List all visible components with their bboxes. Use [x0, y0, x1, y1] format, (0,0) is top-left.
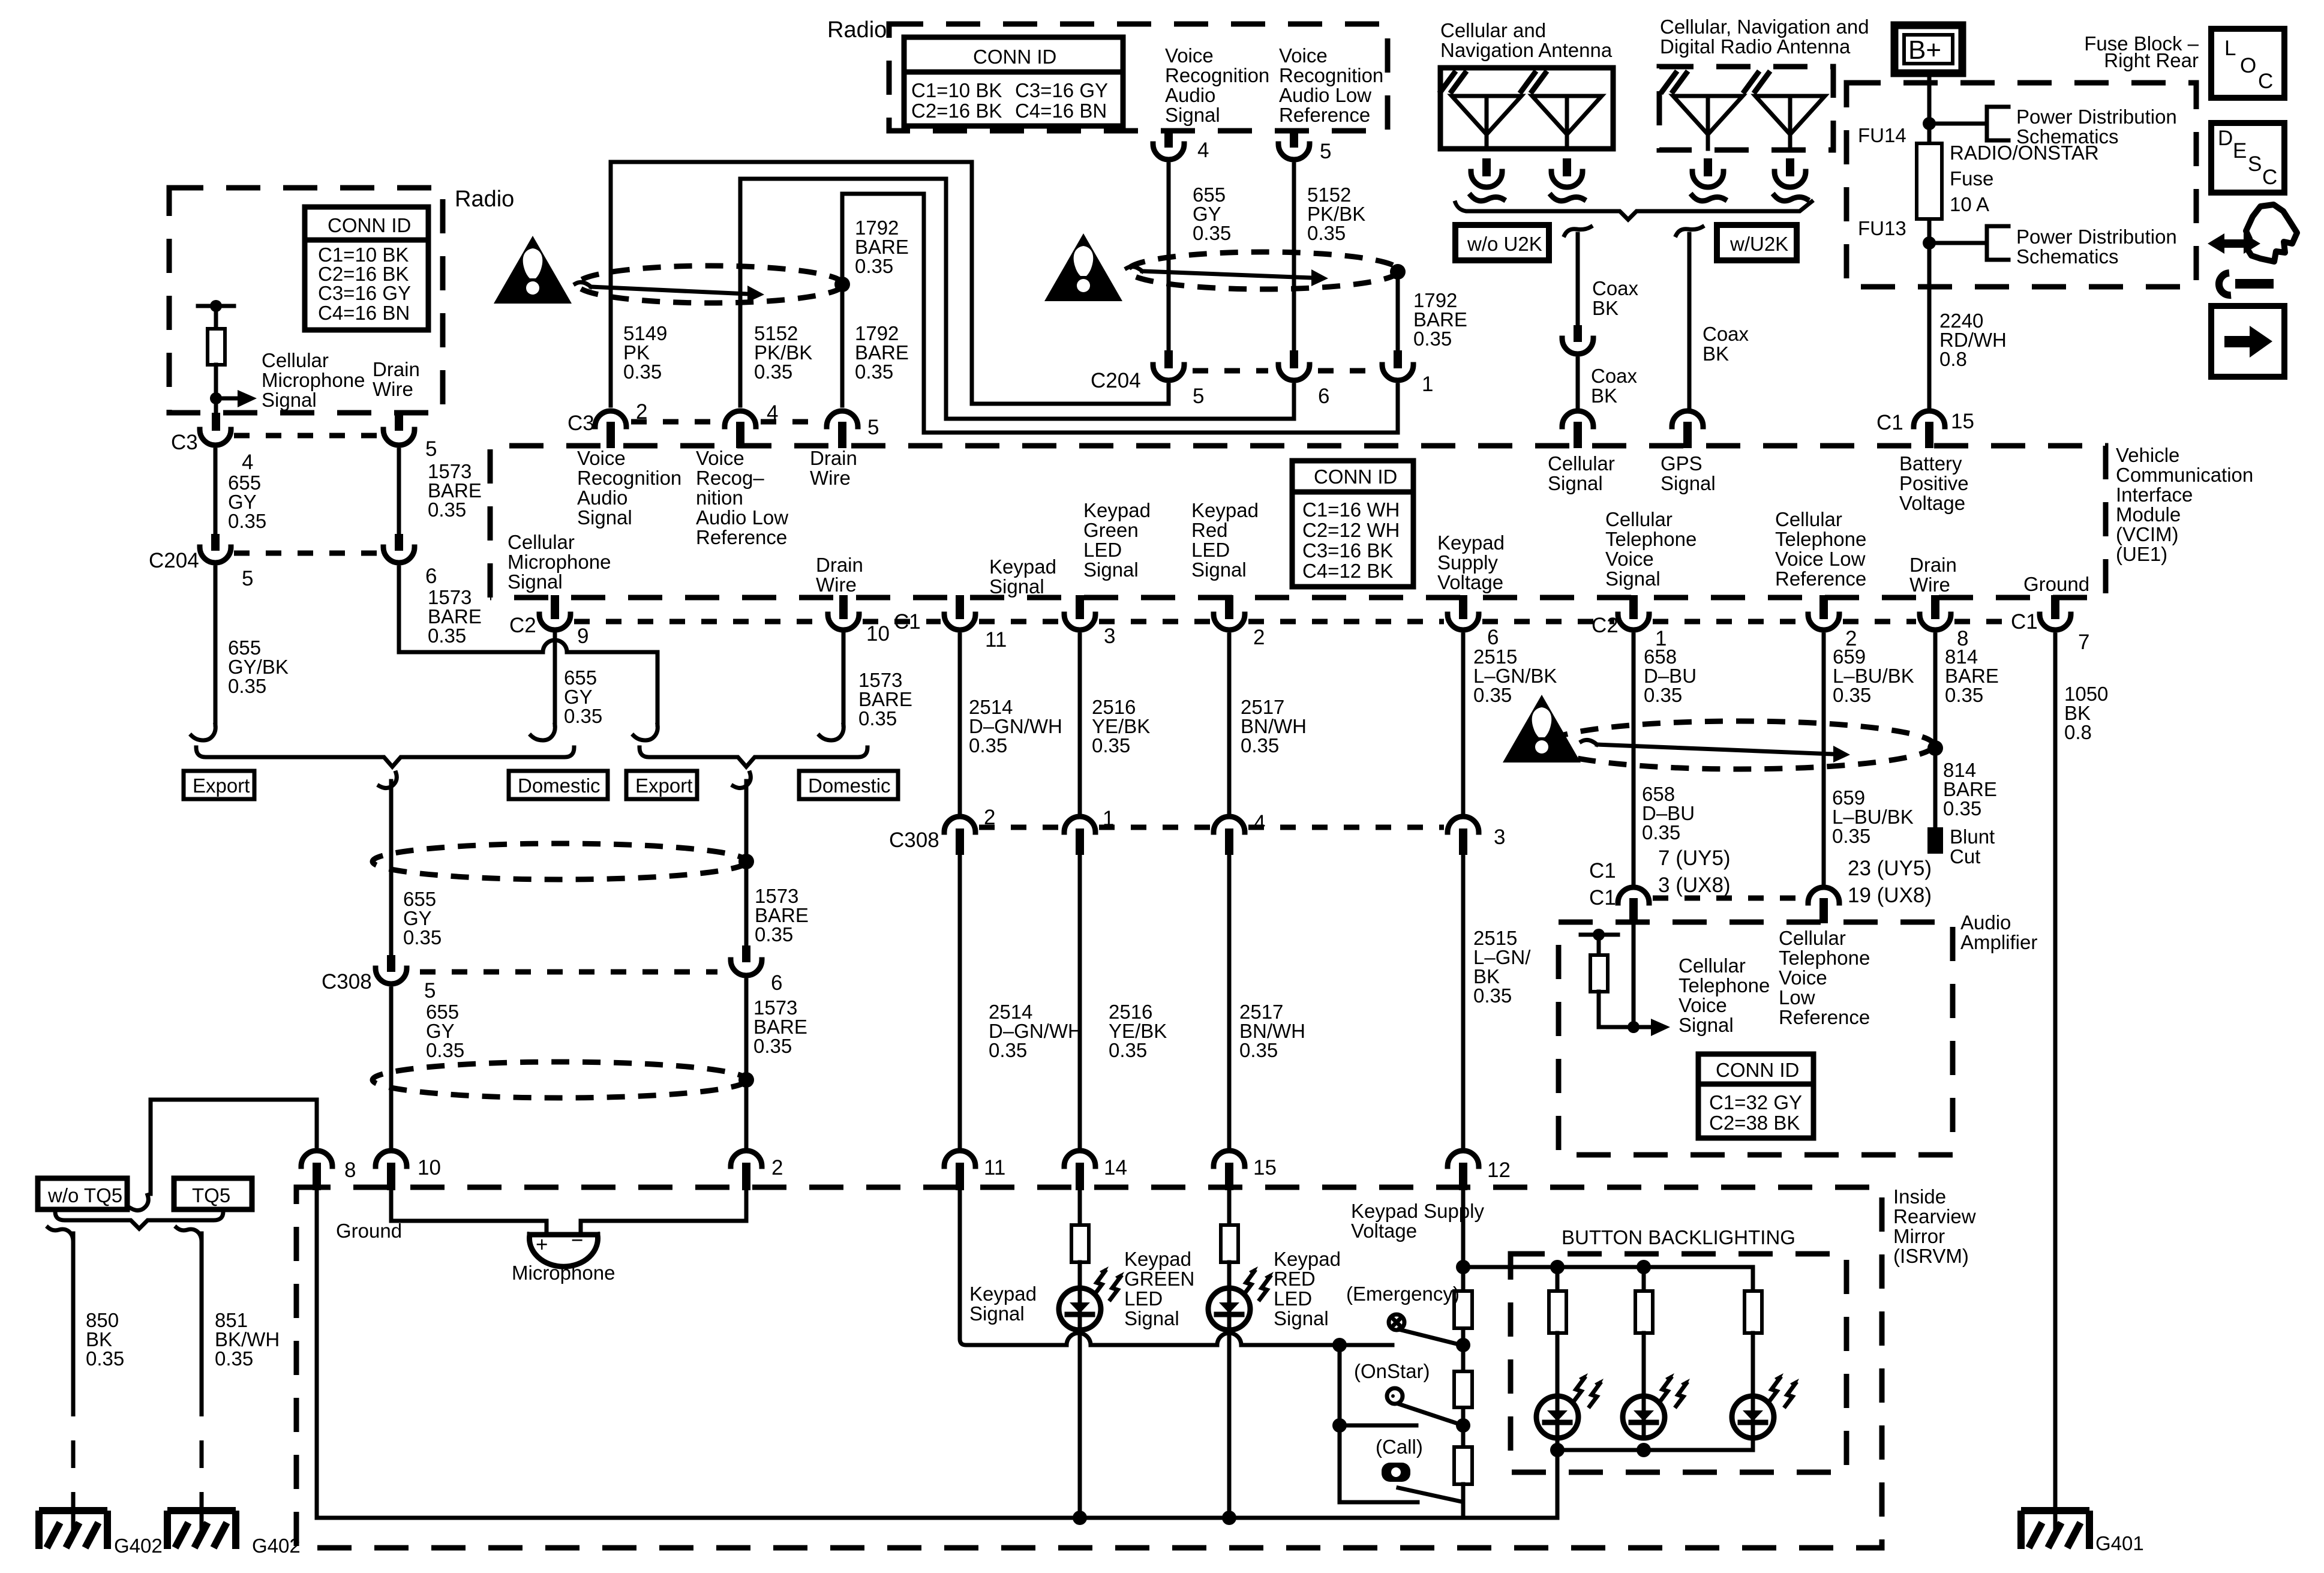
svg-text:Domestic: Domestic — [518, 775, 600, 797]
svg-text:Cellular: Cellular — [262, 349, 329, 371]
svg-text:C204: C204 — [1091, 369, 1141, 392]
wire resistor bottom to junction — [1599, 992, 1634, 1027]
connector ISRVM pin 15 — [1214, 1151, 1245, 1166]
svg-text:FU14: FU14 — [1858, 124, 1906, 146]
shield arrow 2 — [1142, 271, 1311, 278]
svg-text:Reference: Reference — [1775, 568, 1866, 590]
svg-text:0.35: 0.35 — [1832, 825, 1870, 847]
svg-text:LED: LED — [1191, 539, 1230, 561]
connector ISRVM pin 14 — [1064, 1151, 1095, 1166]
svg-text:Signal: Signal — [577, 506, 632, 529]
svg-text:C308: C308 — [889, 828, 939, 852]
zap arrows (red LED) — [1244, 1266, 1274, 1299]
svg-text:G402: G402 — [114, 1535, 163, 1557]
svg-text:0.35: 0.35 — [428, 625, 466, 647]
svg-text:Telephone: Telephone — [1779, 947, 1870, 969]
svg-text:Drain: Drain — [373, 358, 420, 380]
svg-text:Recog–: Recog– — [696, 467, 764, 489]
svg-text:C1: C1 — [1589, 859, 1616, 882]
amp internal resistor branch bar — [1581, 933, 1618, 937]
button backlighting dashed box — [1511, 1254, 1846, 1472]
coax connector (antenna 1) — [1471, 158, 1503, 201]
svg-text:Audio Low: Audio Low — [1279, 84, 1371, 106]
wire ISRVM pin 10 to microphone — [391, 1190, 547, 1235]
svg-text:Audio: Audio — [1960, 911, 2011, 933]
wire 1792 BARE (dot to C204-1) — [1396, 272, 1400, 352]
shield ellipse 5 — [373, 1062, 747, 1098]
w/o TQ5 box — [38, 1178, 127, 1209]
svg-text:Microphone: Microphone — [262, 369, 365, 391]
Domestic box 2 — [799, 771, 898, 799]
LED backlight 3 — [1732, 1396, 1774, 1438]
wire 2515 L-GN/BK upper — [1461, 635, 1466, 813]
wire 1573 BARE (C308-6 to ISRVM-2) — [744, 980, 749, 1147]
resistor (radio internal) — [208, 329, 225, 365]
svg-text:D: D — [2218, 127, 2233, 150]
backlight branch 3 wire — [1751, 1267, 1755, 1291]
Export box 2 — [626, 771, 697, 799]
svg-text:Microphone: Microphone — [512, 1262, 615, 1284]
wire 2514 D-GN/WH upper — [958, 635, 962, 813]
connector VCIM C2 pin 8 — [1931, 595, 1939, 619]
wire green LED to ground bus — [1078, 1329, 1082, 1518]
svg-text:GPS: GPS — [1661, 452, 1703, 475]
ground G401 — [2021, 1511, 2089, 1549]
wire resistor bottom to pin — [214, 365, 218, 416]
svg-text:S: S — [2248, 152, 2262, 176]
svg-text:(Call): (Call) — [1376, 1436, 1423, 1458]
svg-text:Audio Low: Audio Low — [696, 506, 788, 529]
svg-text:5: 5 — [1193, 385, 1204, 408]
resistor (red LED) — [1221, 1225, 1238, 1262]
wire 658 D-BU (C2-1 down) — [1632, 635, 1636, 884]
warning triangle 2 — [1044, 233, 1122, 301]
keypad signal wire (pin 11 down and right) — [960, 1190, 1392, 1345]
svg-text:Keypad: Keypad — [1191, 499, 1259, 521]
connector C308 pin 5 — [387, 955, 395, 972]
shield ellipse 2 — [1128, 252, 1399, 289]
svg-text:(ISRVM): (ISRVM) — [1893, 1245, 1969, 1267]
svg-text:C1: C1 — [1589, 886, 1616, 909]
svg-text:11: 11 — [985, 628, 1007, 652]
node: mic signal junction with direction arrow — [210, 392, 222, 404]
coax connector (antenna 3) — [1692, 158, 1725, 201]
CONN ID table (middle radio) — [904, 37, 1123, 126]
svg-text:C204: C204 — [149, 549, 199, 572]
coax connector (antenna 4) — [1774, 158, 1807, 201]
wire resistor top — [1597, 935, 1601, 955]
node: call junction to bus — [1461, 1484, 1466, 1518]
next-page arrow box — [2211, 306, 2284, 377]
svg-text:Cut: Cut — [1950, 845, 1980, 867]
svg-text:Signal: Signal — [1548, 472, 1603, 494]
wire 1573 BARE (brace2 down) — [744, 781, 749, 945]
svg-text:Telephone: Telephone — [1775, 528, 1866, 550]
wire to LED 3 — [1751, 1333, 1755, 1397]
node: amp signal junction — [1628, 1021, 1640, 1033]
node: green LED ground junction — [1073, 1511, 1087, 1525]
connector VCIM C2 pin 10 — [839, 595, 848, 619]
node: backlight branch 2 junction — [1637, 1260, 1651, 1274]
merge curl below brace 1 — [379, 773, 397, 788]
wire backlight to ground bus — [1556, 1450, 1560, 1518]
option brace (TQ5) — [55, 1212, 223, 1229]
wire 2515 lower — [1461, 855, 1466, 1147]
svg-text:0.35: 0.35 — [1241, 734, 1279, 757]
svg-text:Telephone: Telephone — [1605, 528, 1697, 550]
node: shield drain junction (ellipse 5) — [738, 1072, 754, 1088]
svg-text:Coax: Coax — [1703, 323, 1749, 345]
svg-text:0.35: 0.35 — [755, 923, 793, 945]
connector C308 pin 4 — [1214, 816, 1245, 832]
wire 1573 BARE from VCIM C2-10 down — [842, 634, 846, 725]
svg-text:Signal: Signal — [1605, 568, 1661, 590]
wire to LED 1 — [1556, 1333, 1560, 1397]
Domestic box 1 — [509, 771, 608, 799]
signal direction arrow — [216, 397, 238, 401]
svg-text:L: L — [2224, 37, 2236, 60]
svg-text:3 (UX8): 3 (UX8) — [1658, 873, 1731, 897]
svg-text:w/U2K: w/U2K — [1730, 233, 1788, 255]
svg-text:10 A: 10 A — [1950, 193, 1989, 215]
svg-text:Audio: Audio — [1165, 84, 1215, 106]
svg-text:Communication: Communication — [2116, 464, 2253, 486]
CONN ID table (VCIM) — [1292, 461, 1413, 587]
onstar branch wire — [1340, 1424, 1416, 1428]
svg-text:Recognition: Recognition — [1165, 64, 1269, 86]
fuse block dashed box — [1846, 83, 2196, 287]
shield ellipse 3 — [1545, 721, 1934, 769]
connector VCIM C3 pin 2 — [595, 411, 626, 427]
connector VCIM C3 pin 4 — [725, 411, 756, 427]
svg-text:0.35: 0.35 — [564, 705, 602, 727]
VCIM dashed box — [490, 446, 2106, 598]
wire end hook (655 GY C2-9) — [531, 725, 555, 740]
merge curl (TQ5 options) — [131, 1195, 148, 1211]
connector ISRVM pin 8 — [301, 1151, 332, 1166]
connector VCIM C1 pin 6 — [1459, 595, 1467, 619]
shield arrow 1 — [591, 287, 747, 294]
resistor termination bar inside radio — [198, 304, 234, 308]
supply feed to backlight — [1463, 1267, 1753, 1291]
svg-text:GREEN: GREEN — [1124, 1268, 1194, 1290]
svg-text:Voice: Voice — [696, 447, 744, 469]
wire end hook (1573 BARE at brace 2) — [633, 725, 657, 740]
svg-text:1: 1 — [1422, 373, 1433, 396]
svg-text:2: 2 — [636, 400, 647, 424]
svg-text:(VCIM): (VCIM) — [2116, 523, 2178, 545]
emergency switch contact — [1389, 1314, 1404, 1330]
resistor (call) — [1454, 1447, 1472, 1484]
svg-text:0.35: 0.35 — [403, 926, 442, 948]
connector VCIM C1 pin 3 — [1076, 595, 1084, 619]
svg-text:4: 4 — [1197, 139, 1209, 162]
wire 658 into amp — [1632, 923, 1636, 1027]
svg-text:7 (UY5): 7 (UY5) — [1658, 846, 1731, 870]
connector radio pin 4 — [1153, 144, 1184, 160]
svg-text:2: 2 — [984, 806, 995, 829]
svg-text:Coax: Coax — [1592, 277, 1639, 299]
svg-text:Voltage: Voltage — [1437, 571, 1503, 593]
svg-text:Rearview: Rearview — [1893, 1205, 1976, 1227]
svg-text:Fuse: Fuse — [1950, 167, 1993, 190]
emergency switch lever — [1399, 1329, 1461, 1345]
svg-text:15: 15 — [1951, 410, 1974, 433]
svg-text:10: 10 — [418, 1156, 441, 1179]
svg-text:Keypad: Keypad — [1437, 532, 1505, 554]
option brace 1 (Export/Domestic) — [196, 748, 574, 767]
wire 655 GY (radio 4 to C204-5) — [1167, 164, 1171, 352]
svg-text:Vehicle: Vehicle — [2116, 444, 2179, 466]
coax inline connector (cellular) — [1574, 325, 1582, 342]
CONN ID table (left radio) — [305, 207, 428, 330]
antenna merge line — [1455, 202, 1812, 220]
svg-text:Voice Low: Voice Low — [1775, 548, 1866, 570]
svg-text:Cellular: Cellular — [1679, 954, 1746, 977]
svg-text:C1: C1 — [894, 610, 921, 634]
svg-text:0.35: 0.35 — [1092, 734, 1130, 757]
resistor (backlight 3) — [1744, 1291, 1762, 1333]
wire 1050 BK ground (C1-7 down) — [2053, 635, 2058, 1533]
svg-text:Cellular: Cellular — [1775, 508, 1842, 530]
wire 2516 YE/BK upper — [1078, 635, 1082, 813]
node: backlight gnd junction 2 — [1637, 1443, 1651, 1457]
connector VCIM C3 pin 5 — [827, 411, 858, 427]
pin stub radio mic signal — [212, 413, 220, 431]
wire 2516 lower — [1078, 855, 1082, 1147]
wire 2514 lower — [958, 855, 962, 1147]
svg-text:3: 3 — [1104, 625, 1115, 648]
connector C308 pin 3 — [1448, 816, 1479, 832]
wire loop B: C204-6 to VCIM C3-4 — [740, 179, 1294, 419]
TQ5 box — [174, 1178, 252, 1209]
svg-text:G401: G401 — [2095, 1532, 2144, 1554]
LED backlight 2 — [1623, 1396, 1665, 1438]
node: emergency junction — [1456, 1338, 1470, 1352]
resistor (backlight 1) — [1549, 1291, 1566, 1333]
connector C308 pin 2 — [944, 816, 975, 832]
svg-text:5: 5 — [424, 979, 436, 1002]
wire ISRVM pin 8 to ground bus — [315, 1190, 319, 1518]
connector row (amp) dotted — [1653, 896, 1804, 901]
antenna 3 — [1662, 73, 1743, 149]
w/U2K box — [1717, 225, 1797, 260]
svg-text:0.35: 0.35 — [1644, 684, 1682, 706]
svg-text:Voice: Voice — [1279, 44, 1328, 67]
wire into ground G402 a — [71, 1500, 76, 1533]
svg-text:Cellular and: Cellular and — [1440, 19, 1546, 41]
w/o U2K box — [1455, 225, 1549, 260]
svg-text:8: 8 — [344, 1158, 356, 1182]
svg-text:Drain: Drain — [816, 554, 863, 576]
svg-text:Voice: Voice — [577, 447, 626, 469]
svg-text:Power Distribution: Power Distribution — [2016, 106, 2177, 128]
wire 851 BK/WH dashed segment — [200, 1389, 204, 1500]
svg-text:Export: Export — [193, 775, 250, 797]
coax drop curl (gps) — [1676, 227, 1703, 235]
wire green LED branch (pin 14 down) — [1078, 1190, 1082, 1225]
svg-text:LED: LED — [1274, 1287, 1312, 1310]
svg-text:12: 12 — [1487, 1158, 1511, 1182]
svg-text:Signal: Signal — [1191, 559, 1247, 581]
svg-text:Supply: Supply — [1437, 551, 1498, 574]
svg-text:Signal: Signal — [1661, 472, 1716, 494]
svg-text:5: 5 — [1320, 140, 1331, 163]
svg-text:4: 4 — [767, 401, 778, 425]
svg-text:C2=16 BK: C2=16 BK — [911, 100, 1002, 122]
svg-text:Digital Radio Antenna: Digital Radio Antenna — [1660, 35, 1851, 58]
svg-text:Signal: Signal — [1165, 104, 1220, 126]
node: red LED ground junction — [1222, 1511, 1236, 1525]
svg-text:+: + — [536, 1233, 548, 1256]
wire end hook (1573 BARE C2-10) — [819, 725, 843, 740]
svg-text:0.35: 0.35 — [1473, 984, 1512, 1007]
wire to LED 2 — [1642, 1333, 1646, 1397]
svg-text:9: 9 — [577, 625, 588, 648]
svg-text:19 (UX8): 19 (UX8) — [1848, 884, 1932, 907]
node: shield drain dot (ellipse 3) — [1927, 740, 1943, 756]
connector VCIM C1 pin 2 — [1225, 595, 1233, 619]
svg-text:C2=38 BK: C2=38 BK — [1709, 1112, 1800, 1134]
ground G402 (right) — [167, 1511, 236, 1549]
svg-text:CONN ID: CONN ID — [328, 214, 411, 236]
svg-text:Signal: Signal — [1679, 1014, 1734, 1036]
audio amplifier dashed box — [1559, 922, 1953, 1155]
svg-text:Telephone: Telephone — [1679, 974, 1770, 996]
svg-text:10: 10 — [866, 622, 890, 646]
node: onstar junction — [1456, 1418, 1470, 1433]
svg-text:Signal: Signal — [262, 389, 317, 411]
wire coax gps — [1688, 234, 1692, 407]
svg-text:0.35: 0.35 — [228, 675, 266, 697]
tap bracket 2 — [1987, 226, 2008, 260]
connector VCIM C2 pin 2 — [1819, 595, 1828, 619]
svg-text:0.35: 0.35 — [855, 255, 893, 277]
svg-text:C1=32 GY: C1=32 GY — [1709, 1091, 1802, 1113]
wire end hook (655 GY/BK) — [191, 725, 215, 740]
connector ISRVM pin 2 — [731, 1151, 762, 1166]
CONN ID table (amp) — [1698, 1054, 1813, 1138]
coax drop curl (cellular) — [1565, 227, 1591, 235]
connector C204 pin 5 — [200, 547, 231, 563]
LED backlight 1 — [1536, 1396, 1578, 1438]
node: B+ tap 2 — [1923, 236, 1936, 250]
warning triangle 3 — [1503, 695, 1581, 763]
svg-text:0.35: 0.35 — [855, 361, 893, 383]
LOC box — [2211, 29, 2284, 98]
shield ellipse 4 — [373, 843, 747, 879]
svg-text:0.35: 0.35 — [215, 1347, 253, 1370]
wire red LED to ground bus — [1227, 1329, 1232, 1518]
wire 850 BK — [71, 1233, 76, 1389]
wire microphone to ISRVM pin 2 — [581, 1190, 746, 1235]
antenna 4 — [1744, 73, 1825, 149]
LED keypad red — [1208, 1288, 1250, 1330]
wire resistor top — [214, 306, 218, 329]
node: shield drain dot (ellipse 2) — [1390, 264, 1406, 280]
svg-text:Domestic: Domestic — [808, 775, 891, 797]
svg-text:0.35: 0.35 — [1239, 1039, 1278, 1061]
connector ISRVM pin 10 — [376, 1151, 407, 1166]
service icon (double arrow and wrench hand) — [2208, 205, 2297, 295]
wire 2240 RD/WH to VCIM C1-15 — [1927, 287, 1932, 407]
VCIM bottom connector row (dotted) — [574, 619, 824, 625]
svg-text:4: 4 — [242, 451, 253, 474]
node: shield drain dot (ellipse 1) — [834, 277, 850, 292]
svg-text:Signal: Signal — [1274, 1307, 1329, 1329]
connector C308 pin 1 — [1064, 816, 1095, 832]
svg-text:0.35: 0.35 — [1307, 222, 1346, 244]
wire coax cellular lower — [1576, 359, 1580, 407]
svg-text:Cellular: Cellular — [508, 531, 575, 553]
svg-text:Wire: Wire — [810, 467, 851, 489]
antenna 2 — [1521, 73, 1602, 149]
connector C3 pin 5 — [383, 430, 415, 445]
svg-text:C3=16 GY: C3=16 GY — [318, 282, 411, 304]
svg-text:BUTTON BACKLIGHTING: BUTTON BACKLIGHTING — [1562, 1226, 1795, 1248]
svg-text:C4=16 BN: C4=16 BN — [318, 302, 410, 324]
svg-text:Power Distribution: Power Distribution — [2016, 226, 2177, 248]
svg-text:0.35: 0.35 — [1473, 684, 1512, 706]
svg-text:0.35: 0.35 — [858, 707, 897, 730]
svg-text:Signal: Signal — [508, 571, 563, 593]
svg-text:0.35: 0.35 — [428, 499, 466, 521]
zap arrows (green LED) — [1095, 1266, 1124, 1299]
svg-text:C: C — [2258, 70, 2273, 93]
wire B+ feed — [1927, 73, 1932, 287]
svg-text:Voltage: Voltage — [1899, 492, 1965, 514]
wire 655 GY from VCIM C2-9 down — [553, 634, 557, 725]
microphone symbol — [530, 1232, 597, 1238]
ground G402 (left) — [39, 1511, 107, 1549]
zap arrows (backlight 1) — [1574, 1373, 1604, 1406]
svg-text:(OnStar): (OnStar) — [1354, 1360, 1430, 1382]
LED keypad green — [1059, 1288, 1101, 1330]
backlight branch 1 wire — [1556, 1267, 1560, 1291]
svg-text:Cellular: Cellular — [1605, 508, 1673, 530]
wire 814 BARE (C2-8 down) — [1933, 635, 1938, 830]
wire 655 GY/BK down to export brace — [214, 568, 218, 725]
svg-text:1: 1 — [1103, 807, 1114, 830]
svg-text:Recognition: Recognition — [1279, 64, 1383, 86]
svg-text:FU13: FU13 — [1858, 217, 1906, 239]
tap wire 1 — [1929, 122, 1987, 126]
svg-text:Reference: Reference — [1779, 1006, 1870, 1028]
Radio (middle) dashed box — [889, 24, 1388, 131]
wire 655 GY (C308-5 to ISRVM-10) — [389, 989, 394, 1148]
svg-text:Voltage: Voltage — [1351, 1220, 1417, 1242]
wire 655 GY (brace1 to mic) — [389, 781, 394, 955]
svg-text:Red: Red — [1191, 519, 1228, 541]
merge curl below brace 2 — [733, 773, 750, 788]
svg-text:w/o TQ5: w/o TQ5 — [47, 1184, 122, 1206]
svg-text:0.35: 0.35 — [1945, 684, 1983, 706]
svg-text:5: 5 — [867, 416, 879, 439]
svg-text:BK: BK — [1591, 385, 1617, 407]
svg-text:BK: BK — [1703, 343, 1729, 365]
svg-text:Keypad: Keypad — [1083, 499, 1151, 521]
node: supply to backlight junction — [1456, 1260, 1470, 1274]
svg-text:nition: nition — [696, 487, 743, 509]
shield arrow 3 — [1597, 745, 1833, 754]
radio pin stub (voice signal) — [1164, 128, 1173, 148]
switch ladder left rail — [1340, 1345, 1418, 1502]
svg-text:Navigation Antenna: Navigation Antenna — [1440, 39, 1613, 61]
connector radio pin 5 — [1278, 144, 1310, 160]
svg-text:Signal: Signal — [989, 575, 1044, 598]
svg-text:0.8: 0.8 — [1939, 348, 1967, 370]
backlight ground connect — [1557, 1437, 1753, 1450]
